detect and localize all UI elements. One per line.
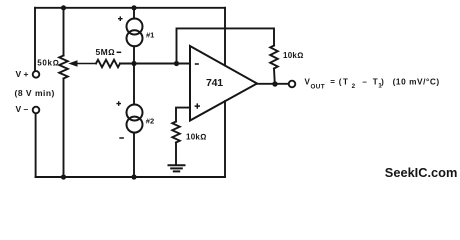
wire pot top lead bbox=[63, 8, 65, 56]
svg-text:741: 741 bbox=[206, 77, 223, 89]
wire top rail V+ from left corner to op-amp supply drop bbox=[35, 7, 225, 9]
wire mid node run to inverting input bbox=[120, 63, 190, 65]
svg-text:#2: #2 bbox=[146, 117, 154, 126]
wire output from apex to terminal bbox=[257, 83, 289, 85]
svg-text:(10 mV/°C): (10 mV/°C) bbox=[393, 76, 440, 86]
svg-text:5MΩ: 5MΩ bbox=[96, 47, 116, 57]
svg-text:(8 V min): (8 V min) bbox=[15, 88, 55, 98]
terminal V- bbox=[33, 107, 40, 114]
terminal V+ bbox=[33, 71, 40, 78]
resistor 10k feedback body bbox=[270, 46, 278, 69]
sensor #2 current source bbox=[127, 105, 143, 121]
svg-text:=: = bbox=[330, 77, 335, 86]
svg-text:#1: #1 bbox=[146, 30, 154, 39]
op-amp 741 bbox=[190, 46, 257, 121]
wire sensor #2 top lead bbox=[133, 64, 135, 105]
ground bbox=[169, 164, 185, 166]
wire sensor #1 bottom lead bbox=[133, 46, 135, 63]
svg-text:T: T bbox=[373, 77, 378, 86]
terminal Vout bbox=[289, 81, 296, 88]
wire resistor to ground bbox=[175, 143, 177, 165]
label - of sensor #2 bbox=[119, 137, 124, 139]
node junction top rail / pot bbox=[61, 5, 66, 10]
wire pot bottom lead bbox=[63, 79, 65, 178]
wire sensor #1 top lead bbox=[133, 8, 135, 19]
svg-text:V +: V + bbox=[16, 69, 29, 79]
node junction feedback / inverting input bbox=[174, 61, 179, 66]
label + input of op-amp bbox=[195, 103, 200, 108]
resistor 5M body bbox=[96, 60, 120, 67]
node junction top rail / sensor #1 bbox=[131, 5, 136, 10]
svg-text:50kΩ: 50kΩ bbox=[37, 58, 59, 67]
wire op-amp V- supply drop to bottom rail bbox=[224, 101, 226, 177]
pot wiper arrow bbox=[77, 63, 97, 65]
wire bottom rail bbox=[36, 176, 225, 178]
svg-text:–: – bbox=[362, 77, 367, 86]
svg-text:): ) bbox=[381, 77, 384, 86]
node junction pot / bottom rail bbox=[61, 174, 66, 179]
svg-text:(T: (T bbox=[339, 77, 350, 86]
wire feedback from inverting node up and across bbox=[177, 28, 275, 63]
sensor #1 current source bbox=[127, 19, 143, 35]
wire sensor #2 bottom lead bbox=[133, 133, 135, 177]
svg-text:OUT: OUT bbox=[311, 84, 326, 91]
node junction sensors / 5M bbox=[131, 61, 136, 66]
wire V+ supply drop to op-amp top edge bbox=[224, 8, 226, 66]
node junction sensor #2 / bottom rail bbox=[131, 174, 136, 179]
label - of sensor #1 bbox=[117, 51, 122, 53]
svg-text:10kΩ: 10kΩ bbox=[186, 132, 207, 141]
svg-text:2: 2 bbox=[352, 83, 356, 90]
wire V- terminal down to bottom rail bbox=[35, 113, 37, 177]
resistor 10k to ground body bbox=[172, 122, 180, 143]
label - input of op-amp bbox=[195, 63, 199, 65]
label + of sensor #2 bbox=[116, 101, 121, 106]
svg-text:V –: V – bbox=[16, 104, 29, 114]
wire left drop from top rail to V+ terminal bbox=[34, 8, 36, 71]
svg-text:10kΩ: 10kΩ bbox=[283, 51, 304, 60]
potentiometer 50k body bbox=[59, 56, 68, 79]
wire non-inverting input bbox=[176, 108, 190, 122]
node junction output / feedback bbox=[272, 81, 277, 86]
svg-text:SeekIC.com: SeekIC.com bbox=[385, 165, 458, 180]
wire feedback resistor to output node bbox=[273, 69, 276, 85]
label + of sensor #1 bbox=[118, 16, 123, 21]
